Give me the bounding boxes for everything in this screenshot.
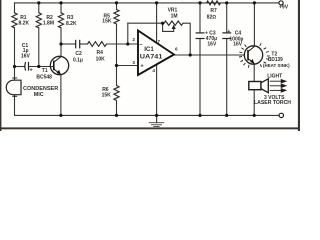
wire feedback corner to pin2 (127, 23, 129, 44)
svg-text:15K: 15K (102, 19, 112, 25)
svg-text:R4: R4 (97, 50, 104, 56)
wire T2 emitter to torch (253, 64, 255, 82)
svg-text:+: + (30, 68, 33, 74)
svg-text:7: 7 (158, 39, 161, 44)
svg-text:LASER TORCH: LASER TORCH (254, 100, 291, 106)
svg-text:CONDENSER: CONDENSER (23, 86, 58, 92)
resistor R1 (12, 13, 17, 28)
svg-text:8.2K: 8.2K (66, 21, 77, 27)
capacitor C2 (76, 40, 80, 49)
svg-text:+9V: +9V (279, 5, 289, 11)
wire pin4 column to ground (156, 65, 158, 116)
resistor R3 (58, 13, 63, 28)
svg-text:T1: T1 (42, 68, 48, 74)
capacitor C4 (222, 33, 231, 39)
wire C3 column bottom (199, 39, 201, 116)
svg-text:6: 6 (175, 46, 178, 51)
svg-text:4: 4 (152, 68, 155, 73)
capacitor C3 (196, 33, 205, 39)
wire R5 bottom to pin3 node (116, 24, 118, 86)
laser torch box (249, 82, 261, 90)
heat sink rays on T2 (239, 43, 270, 67)
wire T1 emitter column (60, 75, 62, 116)
svg-text:3: 3 (132, 60, 135, 65)
svg-text:BD139: BD139 (268, 57, 283, 63)
VR1 wiper arrow (172, 25, 176, 29)
wire pin3 node to op-amp (117, 65, 138, 67)
wire C4 column top (226, 3, 228, 33)
svg-text:82Ω: 82Ω (207, 15, 217, 21)
wire R4 to pin2 (107, 43, 138, 45)
wire R2 column top (38, 3, 40, 13)
capacitor C1 (25, 62, 29, 71)
svg-text:UA741: UA741 (140, 53, 163, 60)
wire C1 left (15, 66, 26, 68)
svg-text:10K: 10K (96, 56, 106, 62)
page frame left (0, 0, 1, 131)
svg-text:BC548: BC548 (36, 75, 52, 81)
wire C1 right to T1 base (29, 66, 54, 68)
wire torch to bottom rail (253, 90, 255, 116)
wire R6 bottom (116, 101, 118, 116)
svg-text:8.2K: 8.2K (19, 21, 30, 27)
wire T2 collector column (253, 3, 255, 46)
resistor R2 (36, 13, 41, 28)
svg-text:(HEAT SINK): (HEAT SINK) (263, 63, 290, 68)
svg-text:MIC: MIC (34, 92, 44, 98)
resistor R4 (88, 42, 107, 47)
page frame right (298, 0, 300, 131)
wire top rail (15, 2, 279, 4)
wire output pin6 to T2 base (174, 54, 244, 56)
svg-text:1M: 1M (171, 14, 178, 20)
wire pin7 column (156, 3, 158, 42)
svg-text:0.1µ: 0.1µ (73, 58, 83, 64)
preset VR1 (164, 21, 183, 25)
svg-text:LIGHT: LIGHT (267, 74, 282, 80)
transistor T2 (244, 46, 262, 64)
transistor T1 (50, 56, 68, 75)
wire T1 collector (60, 44, 62, 57)
wire collector node to C2 (61, 43, 75, 45)
ground stem (156, 115, 158, 122)
wire C3 column top (199, 3, 201, 33)
wire R5 column top (116, 3, 118, 10)
op-amp U1 triangle (138, 31, 174, 76)
wire R3 column top (60, 3, 62, 13)
wire feedback horizontal (128, 22, 164, 24)
laser torch horn (261, 79, 268, 93)
resistor R5 (114, 10, 119, 25)
wire R3 bottom to collector node (60, 28, 62, 44)
wire mic bottom (14, 95, 16, 116)
wire R2 bottom to base node (38, 28, 40, 67)
wire VR1 wiper loop (163, 23, 174, 31)
svg-text:16V: 16V (207, 41, 217, 47)
svg-text:C2: C2 (75, 51, 82, 57)
svg-text:16V: 16V (233, 42, 243, 48)
ground (149, 123, 165, 127)
resistor R6 (114, 86, 119, 101)
light arrows (270, 80, 286, 93)
terminal bottom (279, 113, 283, 117)
wire R1 column top (14, 3, 16, 13)
svg-text:15K: 15K (102, 93, 112, 99)
wire C4 column bottom (226, 39, 228, 116)
svg-text:+: + (227, 29, 230, 35)
condenser mic (6, 80, 21, 95)
svg-text:IC1: IC1 (144, 46, 154, 53)
svg-text:2: 2 (132, 37, 135, 42)
wire R1 bottom to C1 node (14, 28, 16, 67)
resistor R7 (207, 1, 221, 5)
terminal +9V (279, 1, 283, 5)
svg-text:VR1: VR1 (168, 7, 178, 13)
wire C2 to R4 (80, 43, 88, 45)
svg-text:1.8M: 1.8M (43, 21, 54, 27)
svg-text:16V: 16V (21, 54, 31, 60)
wire VR1 right end (183, 23, 190, 55)
svg-text:R7: R7 (210, 8, 217, 14)
page frame bottom (0, 127, 300, 129)
wire bottom rail (15, 114, 280, 116)
wire mic top (14, 67, 16, 81)
